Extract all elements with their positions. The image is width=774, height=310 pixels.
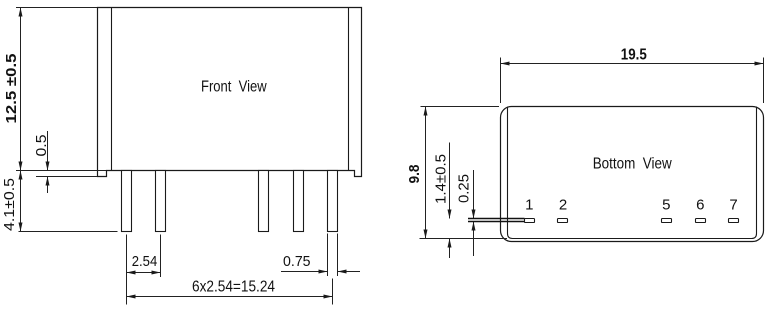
svg-text:0.75: 0.75	[283, 253, 311, 270]
svg-text:Front View: Front View	[201, 78, 267, 95]
svg-text:1: 1	[525, 197, 533, 214]
svg-text:4.1±0.5: 4.1±0.5	[1, 178, 18, 231]
svg-text:12.5 ±0.5: 12.5 ±0.5	[3, 54, 20, 124]
svg-text:19.5: 19.5	[621, 46, 647, 63]
svg-text:0.5: 0.5	[33, 135, 50, 157]
svg-text:7: 7	[729, 197, 737, 214]
svg-text:0.25: 0.25	[456, 174, 473, 203]
svg-text:2.54: 2.54	[132, 253, 158, 270]
svg-text:9.8: 9.8	[406, 165, 423, 184]
svg-text:2: 2	[559, 197, 567, 214]
svg-text:5: 5	[662, 197, 670, 214]
svg-text:6: 6	[696, 197, 704, 214]
svg-text:1.4±0.5: 1.4±0.5	[433, 154, 450, 204]
svg-text:Bottom View: Bottom View	[593, 156, 673, 173]
svg-text:6x2.54=15.24: 6x2.54=15.24	[192, 279, 275, 296]
